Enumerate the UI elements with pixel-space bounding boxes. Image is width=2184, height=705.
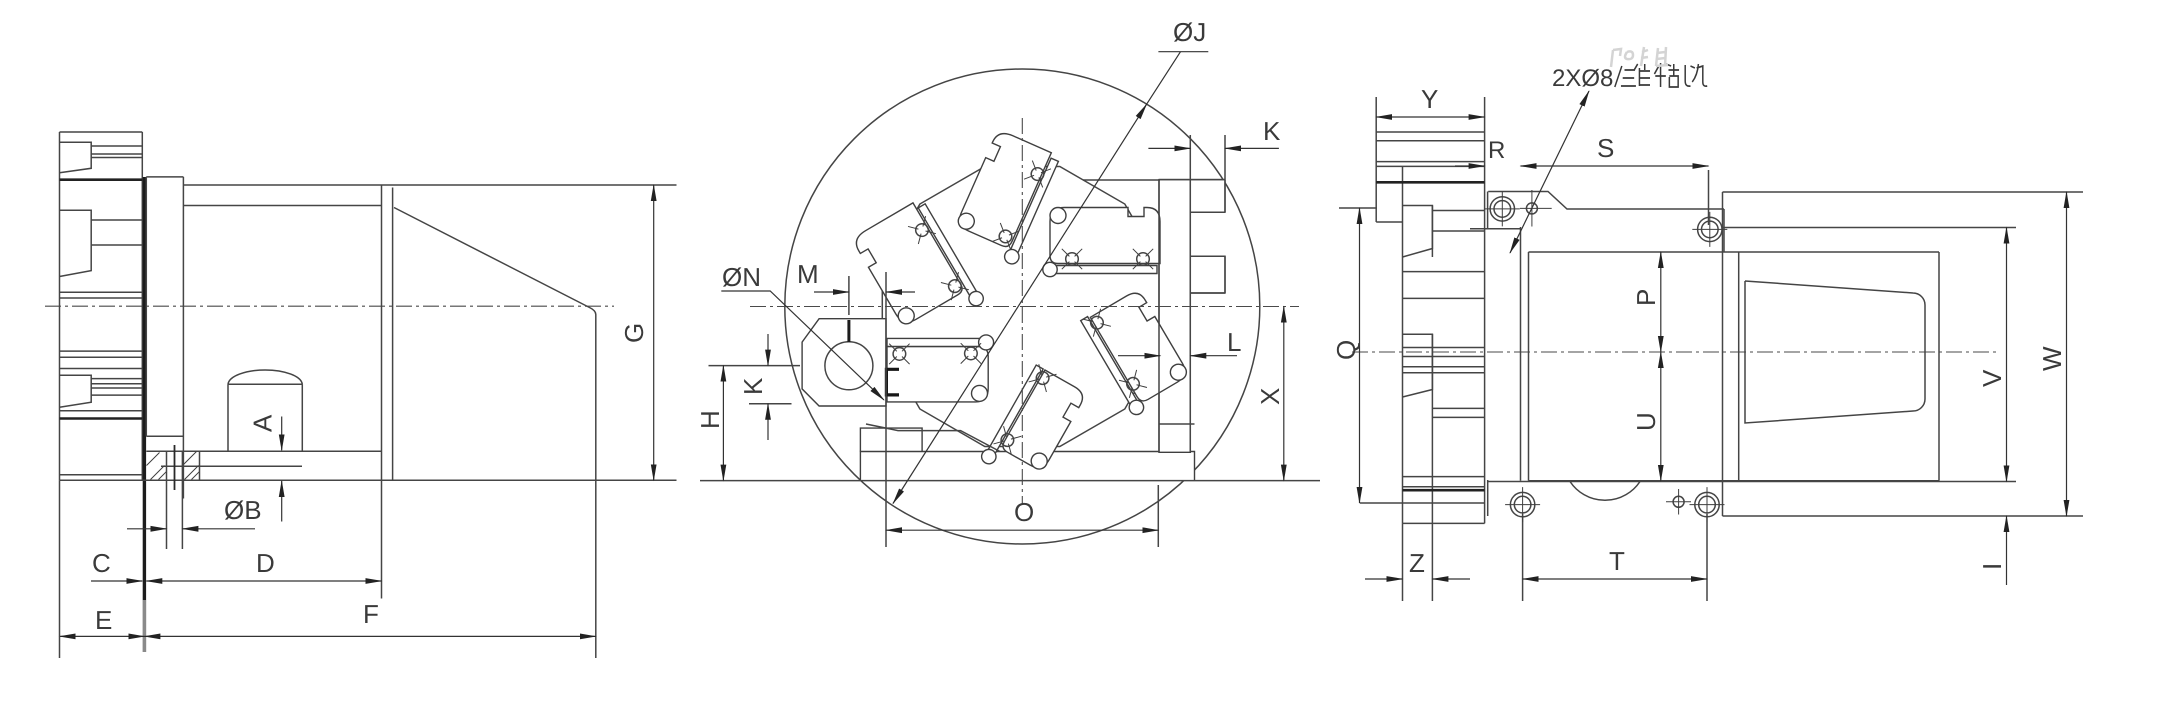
cone slant <box>394 208 596 659</box>
dim L <box>1118 355 1160 357</box>
cover inner profile <box>1745 281 1925 423</box>
dim C <box>91 580 142 582</box>
dim A <box>281 417 283 451</box>
adapter plate <box>146 177 183 499</box>
disc mid lines <box>1403 272 1485 373</box>
rear cover right edge <box>1938 252 1940 481</box>
ON bore circle <box>825 342 873 390</box>
disc upper tooth <box>1403 206 1433 258</box>
dim G <box>653 185 655 480</box>
dim W <box>2066 192 2068 516</box>
bottom long line <box>60 479 677 481</box>
dim T <box>1523 514 1707 601</box>
dim M <box>848 276 850 315</box>
housing ledge <box>1488 192 1724 210</box>
dim P <box>1660 252 1662 352</box>
bottom arc <box>1570 482 1640 501</box>
tool disc outline <box>60 132 143 480</box>
svg-text:G: G <box>619 323 649 343</box>
svg-text:K: K <box>738 377 768 395</box>
disc tooth 1 <box>60 142 92 173</box>
svg-text:U: U <box>1631 412 1661 431</box>
body top <box>183 205 381 207</box>
svg-text:P: P <box>1631 289 1661 306</box>
disc horizontal lines full width <box>60 292 143 474</box>
dim Z <box>1365 578 1403 580</box>
dim OB <box>127 528 167 530</box>
face plate <box>1529 252 1739 481</box>
dim K left <box>749 403 792 405</box>
svg-text:R: R <box>1488 137 1505 164</box>
dim V <box>2006 228 2008 482</box>
watermark <box>1611 47 1668 67</box>
dome boss <box>228 370 302 451</box>
svg-text:I: I <box>1977 563 2007 570</box>
svg-text:H: H <box>695 410 725 429</box>
boss right slot <box>886 369 899 395</box>
OJ diameter line <box>893 104 1147 503</box>
dim I <box>2006 516 2008 585</box>
svg-text:W: W <box>2037 346 2067 371</box>
hatch lines <box>147 452 200 480</box>
rails <box>1723 192 2084 228</box>
svg-text:O: O <box>1014 497 1034 527</box>
svg-text:X: X <box>1255 388 1285 405</box>
svg-text:T: T <box>1609 546 1625 576</box>
wedge unit U2 upper-left <box>852 196 986 344</box>
base left chamfer lines <box>866 424 1000 452</box>
dim D <box>146 580 381 582</box>
housing left edge <box>1520 227 1522 481</box>
svg-text:Z: Z <box>1409 548 1425 578</box>
dim K top-right <box>1190 135 1225 179</box>
centerline right view <box>1352 351 2000 353</box>
wedge unit U5 bottom <box>979 362 1088 490</box>
tab B <box>1190 256 1225 293</box>
disc tooth 2 <box>60 210 92 276</box>
rim dodecagon <box>882 167 1162 447</box>
dim Q <box>1339 207 1377 209</box>
svg-text:M: M <box>797 259 819 289</box>
centerlines <box>750 118 1299 504</box>
wedge unit U4 lower-right <box>1078 287 1194 417</box>
rear flange band <box>382 185 393 599</box>
svg-text:Y: Y <box>1421 84 1438 114</box>
dim H <box>709 365 801 367</box>
svg-text:ØB: ØB <box>224 495 262 525</box>
dim F <box>144 635 595 637</box>
tab A <box>1190 180 1225 213</box>
dim O <box>886 272 1158 547</box>
extension verticals <box>59 480 61 658</box>
bottom long line <box>700 480 1320 482</box>
boss top slot <box>847 320 850 342</box>
disc bottom lines <box>1403 477 1485 487</box>
body bottom <box>146 450 381 452</box>
wedge unit U1 top <box>950 129 1063 266</box>
ON boss octagon <box>802 319 886 406</box>
pin leader <box>1510 91 1589 253</box>
housing right top vertical <box>1723 209 1725 252</box>
svg-text:V: V <box>1977 369 2007 387</box>
svg-text:D: D <box>256 548 275 578</box>
pin holes <box>1526 203 1537 214</box>
svg-text:C: C <box>92 548 111 578</box>
right E-bar <box>1159 180 1190 453</box>
junction face vertical <box>1722 192 1724 516</box>
disc top block lines <box>1376 132 1484 166</box>
svg-text:ØJ: ØJ <box>1173 17 1206 47</box>
disc column verticals <box>1376 132 1484 523</box>
dim E <box>60 635 145 637</box>
disc tooth 3 <box>60 375 92 407</box>
svg-text:F: F <box>363 599 379 629</box>
base step <box>860 428 922 451</box>
svg-text:2XØ8: 2XØ8 <box>1552 65 1613 92</box>
disc lower tooth <box>1403 334 1433 397</box>
dim R <box>1455 165 1485 167</box>
hatch block <box>167 451 200 549</box>
dim Y <box>1376 97 1484 132</box>
bar bottom line <box>1083 180 1195 424</box>
dim U <box>1660 352 1662 481</box>
dim X <box>1283 307 1285 481</box>
wedge unit U6 left-bottom <box>887 335 994 402</box>
E-bar restroke <box>1159 180 1225 453</box>
svg-text:Q: Q <box>1331 340 1361 360</box>
step line <box>161 465 302 467</box>
svg-text:L: L <box>1227 327 1241 357</box>
top long line (flange top / G extension) <box>183 184 676 186</box>
svg-text:K: K <box>1263 116 1281 146</box>
base plate <box>860 452 1194 481</box>
hanzi zhui xiao kong <box>1615 63 1707 87</box>
svg-text:E: E <box>95 605 112 635</box>
heavy mounting face line <box>143 177 146 600</box>
big circle <box>785 69 1260 544</box>
svg-text:ØN: ØN <box>722 262 761 292</box>
svg-text:A: A <box>248 414 278 432</box>
bolts <box>1485 191 1520 226</box>
svg-text:S: S <box>1597 133 1614 163</box>
dim S <box>1708 170 1710 225</box>
wedge unit U3 right <box>1043 208 1160 277</box>
centerline left view <box>45 305 614 307</box>
